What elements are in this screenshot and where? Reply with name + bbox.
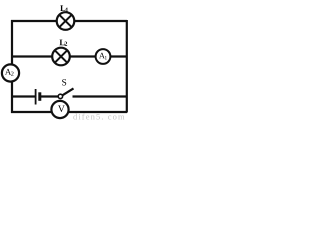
wire bottom branch xyxy=(11,111,127,113)
wire right vertical xyxy=(126,20,128,113)
wire left vertical xyxy=(11,20,13,113)
voltmeter V xyxy=(51,101,68,118)
wire second branch xyxy=(11,55,127,57)
wire battery to switch xyxy=(41,95,58,97)
watermark xyxy=(73,112,126,122)
label S xyxy=(62,79,66,85)
wire switch to right xyxy=(73,95,128,97)
label L1 xyxy=(60,5,68,11)
switch S xyxy=(58,88,73,98)
lamp L1 xyxy=(57,12,75,30)
wire top branch xyxy=(11,20,127,22)
lamp L2 xyxy=(52,48,70,66)
ammeter A1 xyxy=(96,49,111,64)
ammeter A2 xyxy=(2,64,19,81)
label L2 xyxy=(59,40,67,46)
wire battery branch left xyxy=(11,95,35,97)
battery xyxy=(36,89,40,105)
svg-text:difen5. com: difen5. com xyxy=(73,112,126,122)
